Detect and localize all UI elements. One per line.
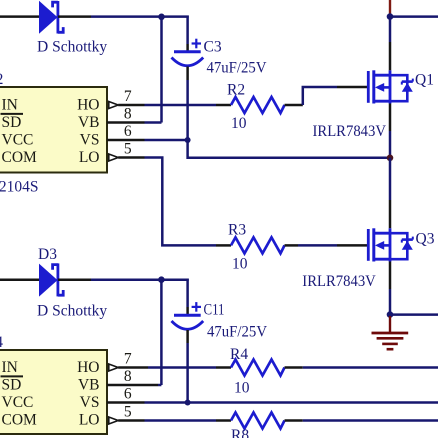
junction node VS / C11: [185, 400, 191, 406]
svg-text:6: 6: [124, 123, 132, 140]
wire VB riser lower: [160, 280, 163, 385]
svg-text:VS: VS: [80, 394, 100, 411]
svg-text:5: 5: [124, 404, 132, 421]
wire R3 to Q3 gate: [298, 244, 337, 247]
capacitor C11: [172, 302, 204, 329]
svg-text:D3: D3: [38, 246, 57, 263]
pin 5 LO lower: [109, 404, 145, 425]
wire R4 to right edge: [303, 366, 438, 369]
junction node drain rail top: [387, 13, 394, 20]
wire VB pin to riser lower: [158, 384, 161, 387]
svg-text:C11: C11: [204, 302, 225, 319]
svg-text:7: 7: [124, 351, 132, 368]
wire VS lower to right edge: [188, 401, 438, 404]
svg-text:C3: C3: [204, 39, 222, 56]
wire Q1 gate pin: [337, 86, 367, 89]
svg-text:10: 10: [234, 380, 250, 397]
svg-text:47uF/25V: 47uF/25V: [207, 324, 268, 341]
svg-text:8: 8: [124, 368, 132, 385]
svg-text:R8: R8: [231, 427, 249, 438]
pin 7 HO: [109, 88, 145, 109]
resistor R4: [216, 360, 303, 376]
wire switch node to Q3 drain: [389, 158, 392, 200]
svg-text:10: 10: [231, 115, 247, 132]
pin 8 VB lower: [107, 368, 158, 385]
op-amp U4 (IR2104S driver box): [0, 350, 107, 434]
svg-text:5: 5: [124, 141, 132, 158]
svg-text:R2: R2: [227, 82, 245, 99]
svg-text:VS: VS: [80, 132, 100, 149]
svg-text:VCC: VCC: [2, 394, 34, 411]
wire VS pin to junction: [145, 139, 188, 142]
pin 6 VS: [107, 123, 145, 140]
wire power stub top right (red): [389, 0, 391, 14]
svg-text:D Schottky: D Schottky: [37, 303, 107, 320]
svg-text:VB: VB: [78, 114, 100, 131]
svg-text:6: 6: [124, 386, 132, 403]
svg-text:HO: HO: [77, 359, 99, 376]
wire VS pin to junction lower: [145, 401, 188, 404]
pin 5 LO: [109, 141, 145, 162]
svg-text:IRLR7843V: IRLR7843V: [313, 123, 387, 140]
resistor R3: [216, 237, 298, 253]
svg-text:47uF/25V: 47uF/25V: [207, 60, 268, 77]
wire top rail left (anode side of D2): [0, 15, 40, 18]
svg-text:IR2104S: IR2104S: [0, 179, 39, 196]
transistor Q3: [368, 228, 413, 261]
junction node ground rail: [387, 311, 394, 318]
junction node VB rail: [158, 13, 165, 20]
wire LO to R8: [145, 419, 217, 422]
wire VB pin to riser: [145, 121, 162, 124]
wire lower rail left (anode side of D3): [0, 278, 40, 281]
junction node VB rail lower: [158, 276, 165, 283]
svg-text:R4: R4: [230, 346, 248, 363]
capacitor C3: [172, 39, 204, 66]
junction node VS / C3: [185, 137, 191, 143]
pin 8 VB: [107, 106, 145, 123]
wire top right rail: [390, 15, 438, 18]
wire lower rail (cathode pin of D3): [58, 278, 91, 281]
svg-text:U2: U2: [0, 71, 3, 88]
pin 6 VS lower: [107, 386, 145, 403]
wire VB riser: [160, 17, 163, 123]
op-amp U2 (IR2104S driver box): [0, 87, 107, 173]
svg-text:SD: SD: [2, 114, 22, 131]
ground: [372, 316, 409, 349]
diode D3: [39, 263, 63, 296]
wire Q3 source to ground node: [389, 262, 392, 290]
svg-text:D Schottky: D Schottky: [37, 39, 107, 56]
svg-text:Q3: Q3: [416, 231, 435, 248]
svg-text:IN: IN: [2, 359, 18, 376]
diode D2: [39, 1, 63, 34]
wire C11 bottom lead: [186, 330, 189, 343]
wire top rail navy to C3 corner: [91, 15, 189, 18]
svg-text:Q1: Q1: [415, 72, 434, 89]
wire ground rail right: [390, 313, 438, 316]
wire R8 to right edge: [303, 419, 438, 422]
junction node switch A: [387, 155, 394, 162]
wire HO to R2: [145, 104, 217, 107]
wire LO down to R3 row: [145, 158, 217, 246]
wire C11 top lead: [186, 279, 189, 307]
svg-text:VCC: VCC: [2, 132, 34, 149]
wire C3 top lead: [186, 16, 189, 45]
svg-text:8: 8: [124, 106, 132, 123]
wire lower rail navy to C11 corner: [91, 278, 189, 281]
svg-text:COM: COM: [2, 412, 38, 429]
wire C3 bottom lead: [186, 67, 189, 81]
pin 7 HO lower: [109, 351, 148, 372]
svg-text:SD: SD: [2, 377, 22, 394]
wire R2 jog up to Q1 gate: [303, 87, 337, 105]
transistor Q1: [368, 70, 413, 103]
wire Q3 gate pin: [337, 244, 367, 247]
wire Q1 drain: [389, 17, 392, 42]
svg-text:LO: LO: [79, 412, 100, 429]
wire HO to R4: [148, 366, 216, 369]
svg-text:R3: R3: [228, 222, 246, 239]
svg-text:10: 10: [232, 256, 248, 273]
resistor R8: [216, 413, 303, 429]
svg-text:IN: IN: [2, 97, 18, 114]
svg-text:IRLR7843V: IRLR7843V: [302, 273, 376, 290]
wire VS jog down and right to switch node: [188, 140, 390, 158]
wire top rail (cathode pin of D2): [58, 15, 91, 18]
svg-text:VB: VB: [78, 377, 100, 394]
svg-text:HO: HO: [77, 97, 99, 114]
svg-text:U4: U4: [0, 334, 3, 351]
wire Q1 source: [389, 104, 392, 132]
svg-text:COM: COM: [2, 149, 38, 166]
resistor R2: [216, 97, 303, 113]
svg-text:7: 7: [124, 88, 132, 105]
svg-text:LO: LO: [79, 149, 100, 166]
